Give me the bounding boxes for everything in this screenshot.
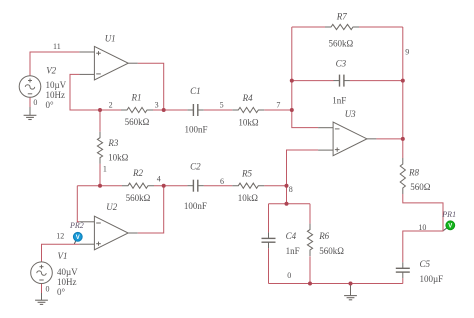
junction C3 row right [401,79,405,83]
svg-text:5: 5 [220,100,224,109]
svg-text:100nF: 100nF [184,125,207,135]
op-amp U1 [79,46,137,80]
svg-text:10kΩ: 10kΩ [238,118,259,128]
svg-text:560kΩ: 560kΩ [126,193,151,203]
svg-text:R6: R6 [318,231,329,241]
svg-text:0: 0 [33,98,37,107]
svg-text:10Hz: 10Hz [57,277,77,287]
svg-text:100µF: 100µF [420,274,444,284]
wire R6 bottom to node 0 row [309,256,311,283]
wire U3 + input to node 8 col [287,150,319,204]
svg-text:560Ω: 560Ω [410,182,431,192]
svg-text:U2: U2 [106,202,117,212]
svg-text:0: 0 [287,271,291,280]
wire U2 - input feedback to node 1 [77,186,79,222]
svg-text:PR2: PR2 [69,221,84,230]
ground below V1 [35,293,48,304]
wire V1 to ground [41,284,43,294]
svg-text:1: 1 [103,164,107,173]
svg-text:0: 0 [46,284,50,293]
svg-text:C4: C4 [286,231,297,241]
wire node 6: C2 to R5 [204,185,233,187]
node 7 junction [290,108,294,112]
wire C4 bottom to node 0 row [268,248,270,283]
junction C3 row left [290,79,294,83]
svg-text:10Hz: 10Hz [46,90,66,100]
node 3 junction [162,108,166,112]
svg-text:R3: R3 [107,138,118,148]
op-amp U2 [79,216,137,250]
op-amp U3 [318,122,376,156]
resistor R4 [232,107,264,112]
svg-text:V2: V2 [46,66,56,76]
wire to R6 top [309,204,311,224]
node 8 junction [285,184,289,188]
wire node 4 to C2 [154,185,187,187]
wire R3 to node 1 [99,164,101,186]
wire R5 to node 8 [264,185,286,187]
probe PR2 (voltage) [73,232,82,243]
svg-text:2: 2 [109,100,113,109]
svg-text:R7: R7 [336,12,347,22]
svg-text:4: 4 [157,175,161,184]
wire R8 to node 10 to C5 [403,194,443,262]
wire U2 output to node 4 [138,186,164,233]
junction R6 / node 0 row [308,282,312,286]
svg-text:1nF: 1nF [332,96,346,106]
svg-text:100nF: 100nF [184,201,207,211]
node 4 junction [162,184,166,188]
svg-text:C2: C2 [190,162,201,172]
node 1 junction [98,184,102,188]
ground at bottom row [344,284,357,300]
svg-text:PR1: PR1 [441,210,456,219]
wire V2 to ground [29,97,31,107]
wire node 2 to R3 [99,110,101,132]
svg-text:1nF: 1nF [286,246,300,256]
svg-text:C1: C1 [190,86,201,96]
wire node 1 row left [77,185,122,187]
voltage source V2 [19,76,41,98]
wire C3 row right [350,80,403,82]
svg-text:R1: R1 [131,93,142,103]
capacitor C1 [187,104,203,116]
wire node 0 bottom row [269,283,403,285]
svg-text:U3: U3 [345,109,356,119]
junction node 8 col / C4 R6 bar [285,202,289,206]
svg-text:V: V [76,235,80,241]
svg-text:11: 11 [53,42,61,51]
wire to C4 top [268,204,270,233]
svg-text:560kΩ: 560kΩ [329,39,354,49]
svg-text:560kΩ: 560kΩ [319,246,344,256]
resistor R6 [307,224,312,256]
capacitor C3 [334,75,350,87]
voltage source V1 [31,262,53,284]
svg-text:10kΩ: 10kΩ [108,153,129,163]
resistor R7 [325,24,359,29]
svg-text:9: 9 [405,48,409,57]
svg-text:R8: R8 [408,168,419,178]
capacitor C2 [187,180,203,192]
wire C3 row left [292,80,334,82]
wire U1 - input feedback to node 2 row [70,74,121,110]
wire left col to U3 - input [292,27,318,128]
svg-text:8: 8 [289,185,293,194]
wire node 5: C1 to R4 [204,109,233,111]
svg-text:V1: V1 [58,251,68,261]
resistor R5 [232,183,264,188]
resistor R2 [122,183,154,188]
svg-text:10: 10 [418,223,426,232]
svg-text:U1: U1 [105,34,116,44]
svg-text:10kΩ: 10kΩ [238,193,259,203]
svg-text:10µV: 10µV [46,80,67,90]
svg-text:3: 3 [155,100,159,109]
wire node 3 to C1 [153,109,187,111]
wire C5 bottom to node 0 row [402,278,404,283]
svg-text:0°: 0° [57,287,66,297]
capacitor C5 [396,262,410,278]
ground below V2 [24,107,37,120]
wire node 9 col down to R8 [402,27,404,158]
wire to R7 left [292,26,325,28]
svg-text:C3: C3 [336,59,347,69]
node 2 junction [98,108,102,112]
svg-text:V: V [448,224,452,230]
wire R7 right to node 9 col [359,26,403,28]
svg-text:R5: R5 [241,169,252,179]
probe PR1 (voltage) [444,221,455,231]
wire node 11: V2 to U1 + input [30,52,79,77]
wire node 7: R4 to U3 - net [264,109,292,111]
svg-text:12: 12 [56,231,64,240]
wire U1 output to node 3 [138,63,164,110]
resistor R8 [400,158,405,194]
junction U3 output / node 9 col [401,137,405,141]
svg-text:R4: R4 [242,93,253,103]
svg-text:40µV: 40µV [57,267,78,277]
capacitor C4 [262,232,276,248]
svg-text:7: 7 [276,100,280,109]
svg-text:560kΩ: 560kΩ [125,117,150,127]
svg-text:6: 6 [220,177,224,186]
wire U3 output to node 9 col [376,138,402,140]
wire node 12: V1 to U2 + input [42,244,80,262]
resistor R3 [97,132,102,164]
svg-text:C5: C5 [420,259,431,269]
wire C4/R6 top bar [269,203,311,205]
junction ground / node 0 row [349,282,353,286]
svg-text:0°: 0° [46,100,55,110]
resistor R1 [121,107,153,112]
svg-text:R2: R2 [132,168,143,178]
